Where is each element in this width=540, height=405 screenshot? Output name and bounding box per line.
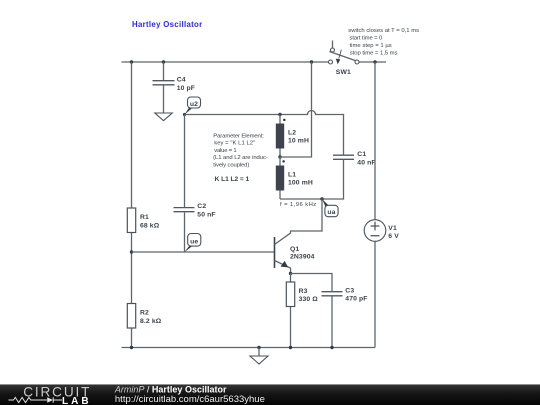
- svg-text:Parameter Element:: Parameter Element:: [213, 133, 264, 139]
- transistor Q1: [275, 199, 323, 274]
- svg-text:f = 1,96 kHz: f = 1,96 kHz: [280, 202, 316, 208]
- label R3 value: [299, 288, 319, 303]
- node junction ground bottom: [257, 346, 260, 349]
- label V1 value: [388, 225, 399, 240]
- svg-text:Hartley Oscillator: Hartley Oscillator: [132, 20, 203, 29]
- capacitor C2: [174, 208, 195, 252]
- inductor L2: [276, 115, 286, 158]
- wire u2 corner down to C2: [184, 115, 186, 208]
- node junction C4 top: [162, 60, 165, 63]
- svg-text:V1: V1: [388, 225, 397, 232]
- svg-text:8.2 kΩ: 8.2 kΩ: [140, 318, 162, 325]
- node junction base rail: [130, 250, 133, 253]
- capacitor C3: [291, 274, 343, 348]
- capacitor C4: [153, 62, 175, 113]
- svg-text:330 Ω: 330 Ω: [299, 296, 319, 303]
- svg-text:ArminP / Hartley Oscillator: ArminP / Hartley Oscillator: [114, 385, 227, 395]
- svg-text:http://circuitlab.com/c6aur563: http://circuitlab.com/c6aur5633yhue: [115, 395, 265, 405]
- node junction L2 top: [278, 113, 281, 116]
- resistor R2: [127, 304, 135, 329]
- wire left rail: [131, 62, 133, 348]
- svg-text:L2: L2: [288, 130, 296, 137]
- annotation parameter element: [213, 133, 268, 168]
- switch SW1: [329, 41, 360, 65]
- label C3 value: [345, 287, 367, 302]
- svg-text:K L1 L2 = 1: K L1 L2 = 1: [215, 176, 250, 183]
- footer bar top edge: [0, 384, 540, 385]
- svg-text:key = "K L1 L2": key = "K L1 L2": [214, 141, 255, 147]
- node junction tap between L2 and L1: [278, 155, 281, 158]
- node junction R3 bottom: [289, 346, 292, 349]
- node junction R2 bottom: [130, 346, 133, 349]
- wire base: [132, 251, 275, 253]
- wire tap to riser: [280, 62, 312, 157]
- annotation resonant frequency: [280, 202, 316, 208]
- svg-text:C4: C4: [177, 77, 186, 84]
- svg-text:ue: ue: [190, 239, 198, 246]
- node junction top-left rail: [130, 60, 133, 63]
- node label u2: [183, 97, 201, 116]
- annotation switch timing: [348, 28, 419, 57]
- svg-text:R3: R3: [299, 288, 308, 295]
- footer title text: [110, 384, 410, 405]
- svg-text:(L1 and L2 are induc-: (L1 and L2 are induc-: [213, 155, 268, 161]
- label Q1 type: [290, 246, 315, 261]
- svg-text:100 mH: 100 mH: [288, 180, 313, 187]
- svg-text:R2: R2: [140, 309, 149, 316]
- svg-text:10 mH: 10 mH: [288, 138, 309, 145]
- ground under C4: [155, 113, 172, 121]
- svg-text:Q1: Q1: [290, 246, 299, 253]
- svg-text:470 pF: 470 pF: [345, 295, 367, 302]
- svg-text:50 nF: 50 nF: [197, 211, 215, 218]
- voltage source V1: [364, 62, 386, 348]
- wire top rail: [122, 61, 387, 63]
- svg-text:tively coupled): tively coupled): [213, 162, 249, 168]
- svg-text:40 nF: 40 nF: [357, 160, 375, 167]
- inductor L1: [276, 157, 285, 199]
- node junction tap riser top: [310, 60, 313, 63]
- logo CircuitLab: [0, 384, 110, 405]
- wire tank bottom: [280, 159, 344, 199]
- svg-text:SW1: SW1: [336, 69, 351, 76]
- node junction ua: [320, 197, 323, 200]
- node junction C3 bottom: [330, 346, 333, 349]
- svg-text:LAB: LAB: [62, 396, 92, 405]
- svg-text:u2: u2: [190, 101, 198, 108]
- label SW1: [336, 69, 351, 76]
- node junction V1 top: [373, 60, 376, 63]
- label R1 value: [140, 214, 160, 230]
- svg-text:value = 1: value = 1: [214, 148, 237, 154]
- label C1 value: [357, 151, 375, 167]
- resistor R3: [286, 274, 294, 348]
- svg-text:C1: C1: [357, 151, 366, 158]
- node label ua: [322, 199, 338, 216]
- svg-text:68 kΩ: 68 kΩ: [140, 222, 160, 229]
- wire u2 corner to L2 and C1 (hop over riser): [185, 111, 344, 156]
- label L2 value: [288, 130, 309, 145]
- svg-text:time step = 1 µs: time step = 1 µs: [350, 43, 392, 49]
- node label ue: [185, 234, 201, 253]
- label R2 value: [140, 309, 162, 325]
- capacitor C1: [333, 155, 354, 159]
- svg-text:C2: C2: [197, 203, 206, 210]
- svg-text:stop time = 1,5 ms: stop time = 1,5 ms: [350, 50, 398, 56]
- svg-text:R1: R1: [140, 214, 149, 221]
- svg-text:ua: ua: [327, 209, 335, 216]
- svg-text:L1: L1: [288, 172, 296, 179]
- svg-text:2N3904: 2N3904: [290, 254, 315, 261]
- svg-text:10 pF: 10 pF: [177, 85, 195, 92]
- label C2 value: [197, 203, 215, 218]
- node junction emitter: [289, 272, 292, 275]
- label L1 value: [288, 172, 313, 187]
- wire bottom rail: [122, 347, 376, 349]
- svg-text:C3: C3: [345, 287, 354, 294]
- label C4 value: [177, 77, 195, 93]
- svg-text:switch closes at T = 0,1 ms: switch closes at T = 0,1 ms: [348, 28, 419, 34]
- footer bar: [0, 384, 540, 405]
- annotation K coupling: [215, 176, 250, 183]
- svg-text:6 V: 6 V: [388, 233, 399, 240]
- svg-text:start time = 0: start time = 0: [350, 36, 384, 42]
- ground bottom: [250, 348, 268, 365]
- resistor R1: [127, 208, 135, 233]
- title: [132, 20, 203, 29]
